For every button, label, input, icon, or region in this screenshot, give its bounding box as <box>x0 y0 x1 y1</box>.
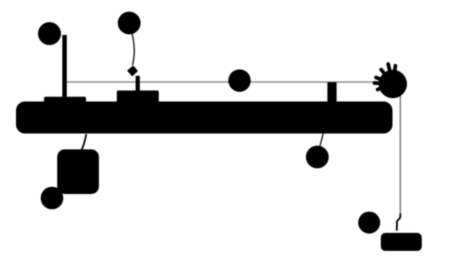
middle post stub <box>136 76 140 92</box>
pulley ball (spiky) <box>375 64 407 98</box>
ball A (top left) <box>38 22 61 45</box>
rope over pulley (vertical) <box>399 92 401 217</box>
rope hook <box>397 214 401 231</box>
ball C (on the line) <box>228 69 250 91</box>
hanging square block <box>57 149 99 194</box>
ball B (top middle) <box>118 12 141 35</box>
ball D (hanging under beam) <box>306 146 329 169</box>
ball E (bottom left) <box>41 187 64 210</box>
diamond bob <box>127 65 138 76</box>
main beam <box>16 102 393 134</box>
left pedestal <box>44 97 86 104</box>
tension line (horizontal gray string at y=82) <box>66 81 380 83</box>
stem string to square <box>82 134 87 150</box>
left post <box>62 35 67 103</box>
weight block (bottom right) <box>381 233 422 251</box>
string to ball D <box>320 134 323 147</box>
middle pedestal <box>117 91 159 104</box>
string from ball B to diamond <box>132 34 134 66</box>
right post stub <box>327 82 336 102</box>
ball F (bottom right) <box>358 212 380 234</box>
